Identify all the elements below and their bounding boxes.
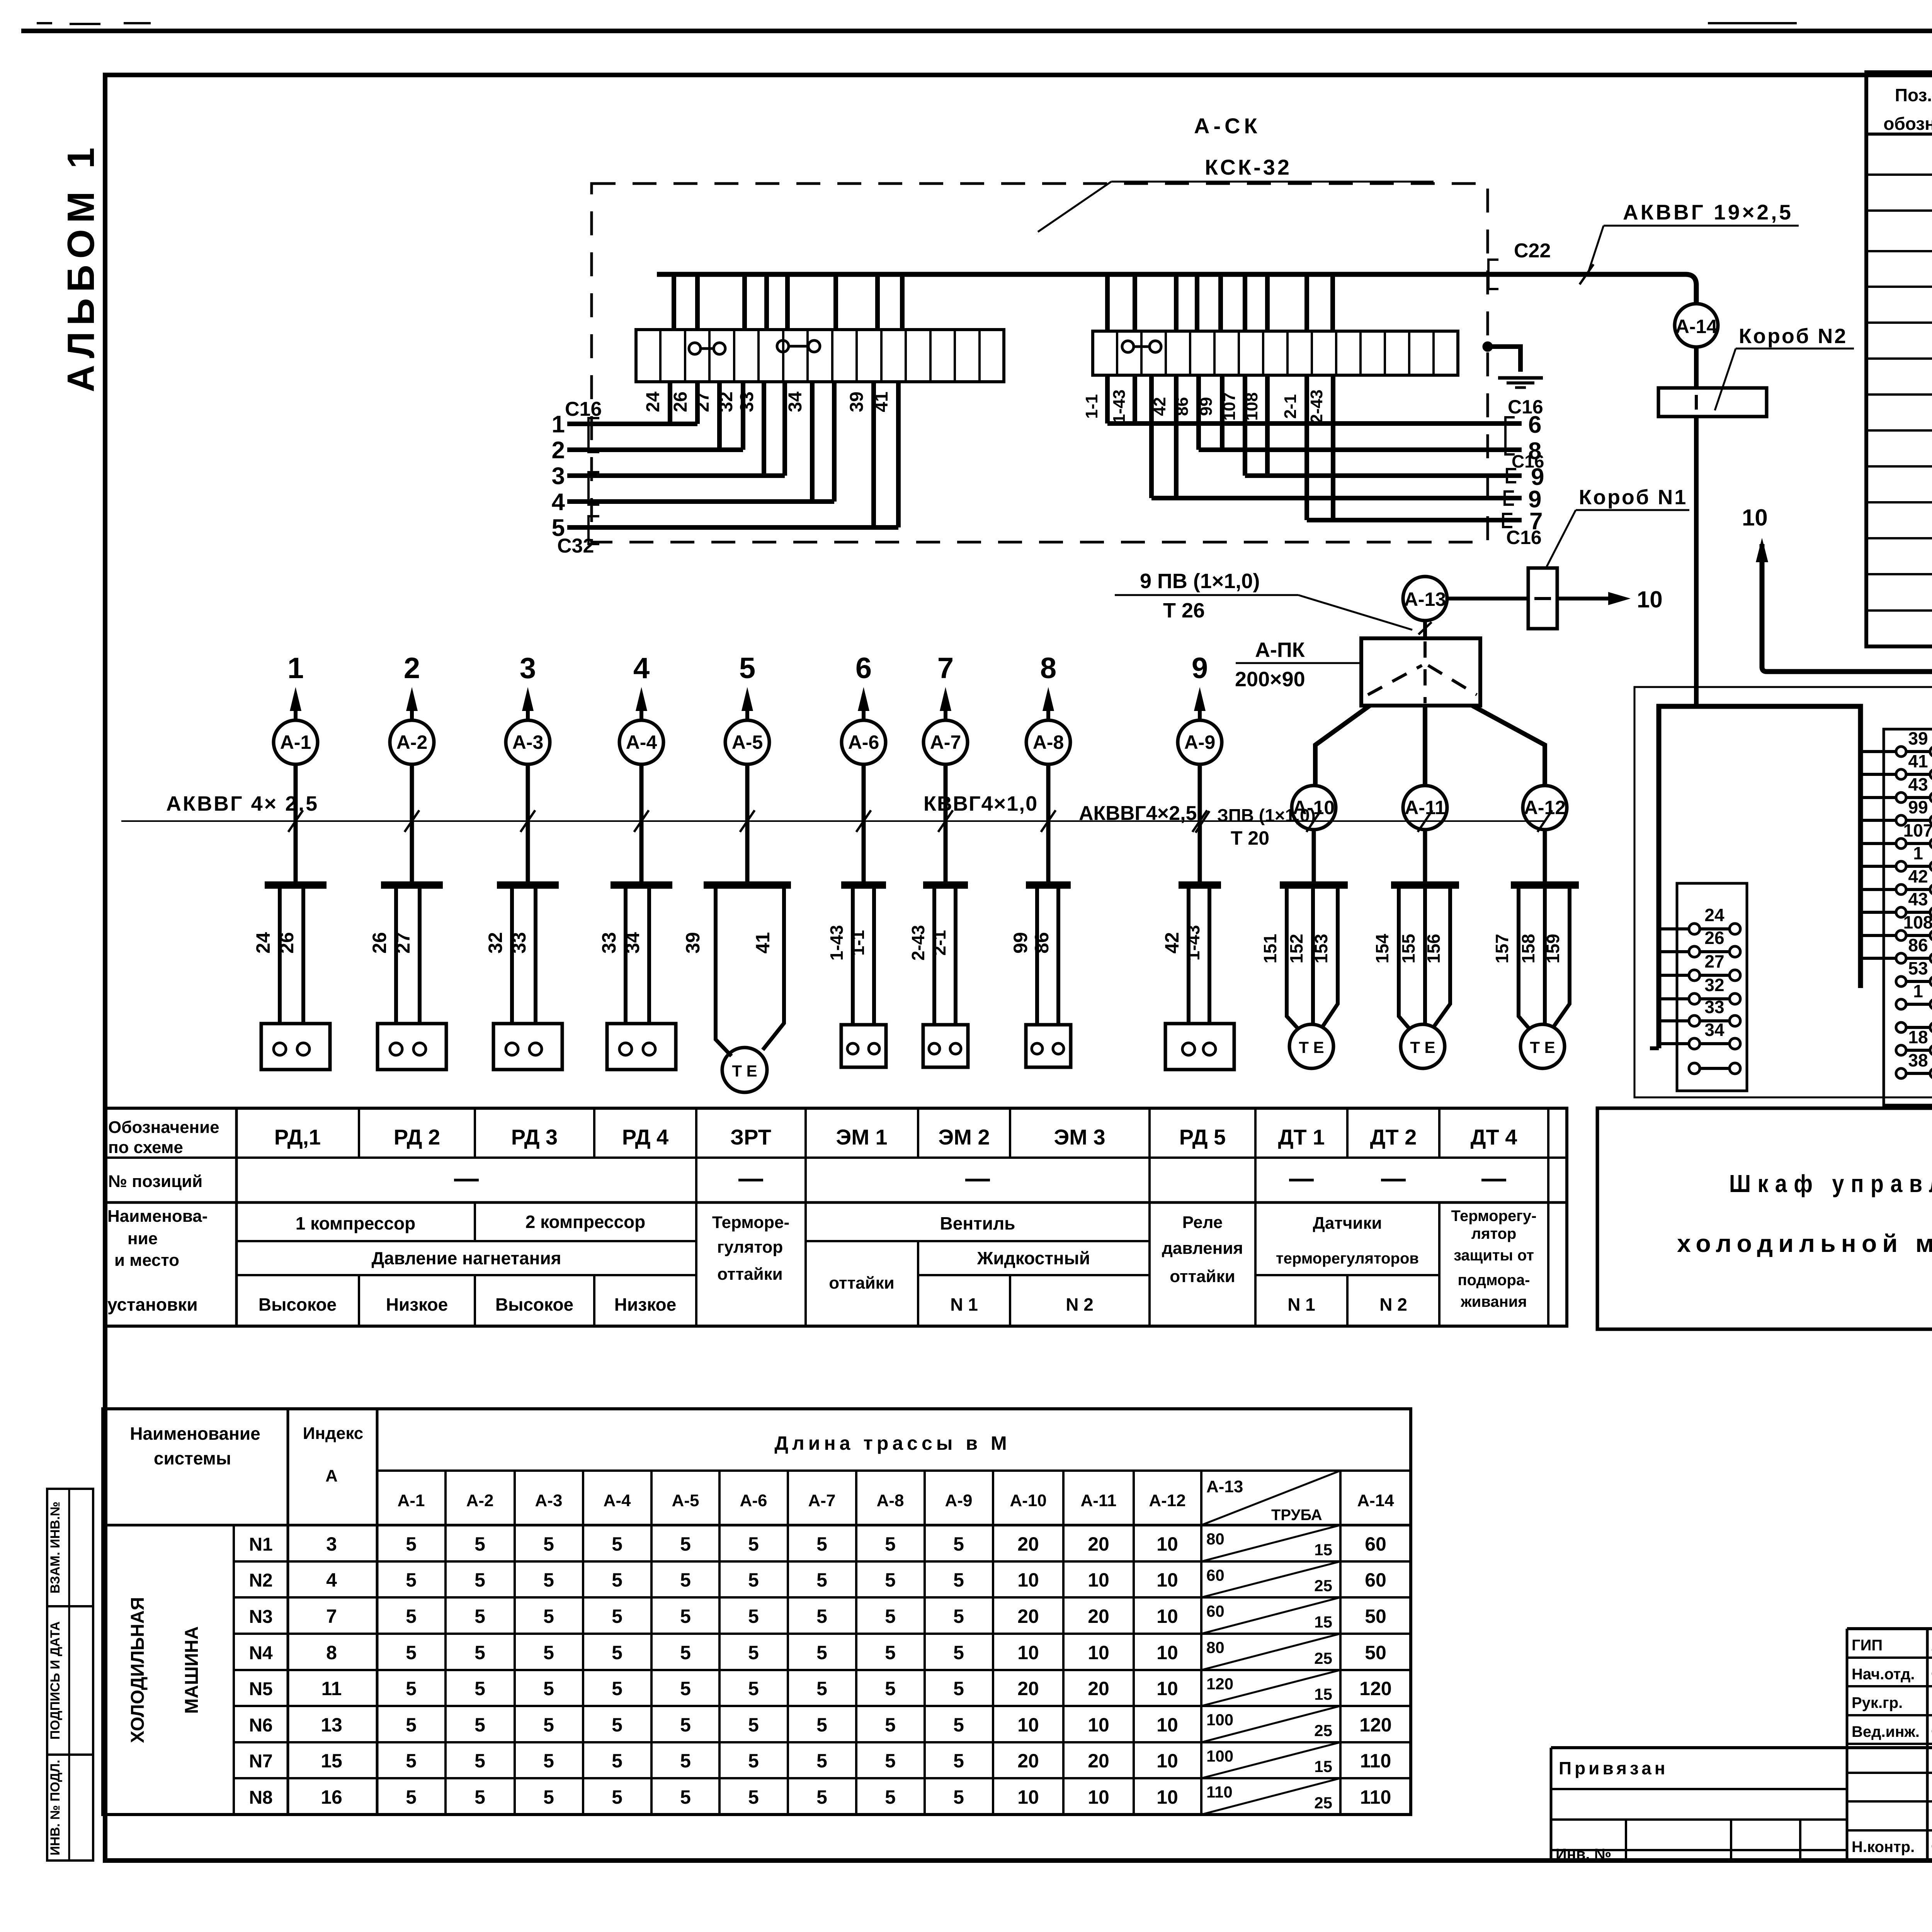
- svg-text:2-1: 2-1: [1281, 394, 1300, 419]
- svg-text:42: 42: [1908, 866, 1928, 886]
- svg-text:Наименование: Наименование: [130, 1423, 260, 1444]
- terminal 86 of strip X2: [1896, 953, 1906, 963]
- svg-text:РД 5: РД 5: [1179, 1125, 1226, 1149]
- terminal 33 of strip X1: [1689, 1015, 1700, 1026]
- svg-text:ТРУБА: ТРУБА: [1271, 1507, 1322, 1524]
- cable mark slash at А-12: [1537, 810, 1552, 832]
- svg-text:N8: N8: [249, 1787, 272, 1808]
- ground connection junction dot: [1483, 342, 1493, 352]
- svg-text:157: 157: [1492, 934, 1512, 964]
- svg-text:1-1: 1-1: [848, 930, 868, 956]
- svg-text:Т Е: Т Е: [1299, 1038, 1324, 1056]
- svg-text:Т 26: Т 26: [1163, 599, 1205, 622]
- panel bus foot: [1650, 1046, 1659, 1050]
- svg-text:С16: С16: [1512, 451, 1544, 471]
- svg-text:32: 32: [1704, 975, 1724, 995]
- svg-text:А-12: А-12: [1149, 1491, 1185, 1510]
- cable mark slash at А-10: [1306, 810, 1321, 832]
- wire to terminal 107: [1861, 842, 1896, 845]
- svg-text:7: 7: [937, 652, 954, 685]
- wire to terminal 34: [1659, 1042, 1689, 1045]
- svg-text:А-1: А-1: [280, 731, 311, 753]
- wire bus to A-14: [1694, 301, 1699, 306]
- cable mark slash near label ZPV: [1196, 811, 1209, 833]
- wire pull box to A-10: [1315, 706, 1370, 786]
- svg-text:5: 5: [816, 1642, 827, 1663]
- svg-text:оттайки: оттайки: [829, 1274, 894, 1293]
- svg-text:А-13: А-13: [1206, 1477, 1243, 1496]
- svg-text:5: 5: [953, 1533, 964, 1555]
- terminal 42 of strip X2: [1896, 884, 1906, 895]
- svg-text:110: 110: [1360, 1750, 1391, 1772]
- svg-text:5: 5: [680, 1750, 691, 1772]
- svg-text:А-2: А-2: [466, 1491, 494, 1510]
- svg-text:и место: и место: [114, 1251, 179, 1270]
- terminal box А-2: [378, 1024, 446, 1070]
- wires below bar А-5: [716, 888, 731, 1056]
- wires bus to TB1: [672, 274, 676, 330]
- wire А-1 to connection bar: [294, 764, 298, 883]
- control cabinet outline: [1634, 687, 1932, 1097]
- wire А-11 to connection bar: [1423, 830, 1427, 883]
- svg-text:120: 120: [1359, 1714, 1391, 1736]
- svg-text:99: 99: [1908, 797, 1928, 817]
- connection bar А-3: [497, 881, 559, 889]
- A-13 split cell row N1: [1201, 1525, 1340, 1561]
- svg-text:153: 153: [1311, 934, 1331, 964]
- svg-text:5: 5: [885, 1750, 896, 1772]
- svg-text:КВВГ4×1,0: КВВГ4×1,0: [923, 792, 1038, 815]
- temperature sensor TE of А-10: [1289, 1024, 1333, 1068]
- wire with arrow to 10: [1557, 597, 1611, 600]
- svg-text:26: 26: [369, 932, 390, 954]
- svg-text:15: 15: [1314, 1541, 1332, 1559]
- terminal 41 of strip X2: [1896, 769, 1906, 779]
- terminal box А-9: [1165, 1024, 1234, 1070]
- device circle А-2: [390, 720, 434, 764]
- connection bar А-2: [381, 881, 443, 889]
- svg-text:5: 5: [816, 1678, 827, 1699]
- svg-text:80: 80: [1206, 1638, 1225, 1656]
- svg-text:10: 10: [1742, 505, 1768, 531]
- svg-text:9: 9: [1192, 652, 1208, 685]
- svg-text:26: 26: [1704, 928, 1724, 948]
- wire А-7 to connection bar: [944, 764, 948, 883]
- svg-text:ИНВ. № ПОДЛ.: ИНВ. № ПОДЛ.: [48, 1760, 63, 1855]
- svg-text:20: 20: [1017, 1533, 1039, 1555]
- A-13 split cell row N8: [1201, 1778, 1340, 1815]
- svg-text:установки: установки: [107, 1294, 198, 1315]
- device circle A-14: [1675, 304, 1718, 347]
- wire stubs below TB2: [1105, 375, 1110, 423]
- junction box A-CK dashed outline: [592, 184, 1488, 542]
- svg-text:Терморе-: Терморе-: [712, 1213, 789, 1232]
- svg-text:Высокое: Высокое: [495, 1294, 573, 1315]
- svg-text:5: 5: [474, 1533, 485, 1555]
- wire 5: [567, 525, 898, 530]
- svg-text:ЭМ 2: ЭМ 2: [938, 1125, 990, 1149]
- device circle А-8: [1026, 720, 1070, 764]
- svg-text:5: 5: [474, 1642, 485, 1663]
- svg-text:26: 26: [670, 391, 691, 412]
- wire to terminal 27: [1659, 974, 1689, 977]
- temperature sensor TE of А-11: [1401, 1024, 1445, 1068]
- svg-text:№ позиций: № позиций: [108, 1172, 202, 1191]
- svg-text:А-11: А-11: [1081, 1491, 1117, 1510]
- wire A-13 to duct box 1: [1447, 597, 1528, 600]
- svg-text:2 компрессор: 2 компрессор: [526, 1212, 646, 1232]
- svg-text:Низкое: Низкое: [614, 1294, 676, 1315]
- svg-text:ДТ 2: ДТ 2: [1370, 1125, 1417, 1149]
- terminal block TB1: [636, 330, 1004, 382]
- svg-text:5: 5: [474, 1786, 485, 1808]
- connector brackets on left dashed border: [588, 418, 599, 452]
- svg-text:системы: системы: [154, 1448, 231, 1468]
- svg-text:1-43: 1-43: [1183, 925, 1203, 961]
- wire 2: [567, 447, 743, 452]
- wire 8: [1199, 447, 1522, 452]
- wire duct box 2 to cabinet: [1694, 417, 1699, 706]
- svg-text:ХОЛОДИЛЬНАЯ: ХОЛОДИЛЬНАЯ: [128, 1597, 148, 1743]
- svg-text:25: 25: [1314, 1649, 1332, 1667]
- svg-text:120: 120: [1359, 1678, 1391, 1699]
- terminal strip X1 24-34: [1677, 883, 1747, 1091]
- svg-text:5: 5: [885, 1678, 896, 1699]
- terminal box А-3: [493, 1024, 562, 1070]
- svg-text:86: 86: [1031, 932, 1053, 954]
- svg-text:80: 80: [1206, 1530, 1225, 1548]
- terminal spare of strip X2: [1896, 1022, 1906, 1032]
- svg-text:Вентиль: Вентиль: [940, 1213, 1015, 1233]
- svg-text:10: 10: [1017, 1642, 1039, 1663]
- svg-text:86: 86: [1908, 935, 1928, 955]
- wire 4: [567, 499, 834, 504]
- svg-text:1: 1: [287, 652, 304, 685]
- svg-text:Индекс: Индекс: [303, 1424, 364, 1443]
- svg-text:15: 15: [1314, 1685, 1332, 1703]
- svg-text:Поз.: Поз.: [1895, 85, 1932, 105]
- svg-text:АЛЬБОМ 1: АЛЬБОМ 1: [60, 141, 102, 392]
- svg-text:5: 5: [543, 1750, 554, 1772]
- svg-text:А-4: А-4: [604, 1491, 631, 1510]
- svg-text:Вед.инж.: Вед.инж.: [1852, 1723, 1920, 1740]
- svg-text:А: А: [325, 1466, 338, 1485]
- svg-text:А-9: А-9: [1184, 731, 1216, 753]
- svg-text:N 2: N 2: [1066, 1294, 1094, 1315]
- svg-text:32: 32: [485, 932, 506, 954]
- svg-text:оттайки: оттайки: [1170, 1267, 1235, 1286]
- svg-text:1-43: 1-43: [827, 925, 847, 961]
- wire А-12 to connection bar: [1543, 830, 1547, 883]
- svg-text:99: 99: [1010, 932, 1031, 954]
- cable mark slash at А-5: [740, 810, 755, 832]
- svg-text:5: 5: [406, 1714, 417, 1736]
- svg-text:5: 5: [748, 1714, 759, 1736]
- svg-text:ЭМ 1: ЭМ 1: [836, 1125, 887, 1149]
- wire A-13 down to pull box: [1423, 621, 1427, 638]
- connection bar А-8: [1026, 881, 1071, 889]
- device circle А-4: [619, 720, 663, 764]
- svg-text:давления: давления: [1162, 1239, 1243, 1258]
- svg-text:5: 5: [612, 1750, 622, 1772]
- svg-text:5: 5: [612, 1642, 622, 1663]
- svg-text:ЗПВ (1×1,0): ЗПВ (1×1,0): [1217, 805, 1316, 825]
- svg-text:86: 86: [1173, 397, 1192, 416]
- terminal 43 of strip X2: [1896, 793, 1906, 803]
- svg-text:защиты от: защиты от: [1454, 1247, 1534, 1264]
- svg-text:Инв. №: Инв. №: [1556, 1846, 1611, 1863]
- wire А-8 to connection bar: [1046, 764, 1051, 883]
- sheet top border line: [21, 29, 1932, 33]
- terminal 34 of strip X1: [1689, 1038, 1700, 1049]
- connection bar А-1: [265, 881, 327, 889]
- svg-text:А-7: А-7: [808, 1491, 836, 1510]
- svg-text:42: 42: [1161, 932, 1183, 954]
- svg-text:13: 13: [321, 1714, 342, 1736]
- svg-text:КСК-32: КСК-32: [1205, 155, 1292, 179]
- svg-text:А-14: А-14: [1675, 316, 1718, 337]
- svg-text:5: 5: [406, 1678, 417, 1699]
- svg-text:N7: N7: [249, 1751, 272, 1772]
- svg-text:5: 5: [474, 1569, 485, 1591]
- svg-text:4: 4: [552, 489, 565, 515]
- wire pull box to A-11: [1423, 706, 1427, 786]
- svg-text:4: 4: [633, 652, 650, 685]
- cabinet inner panel thick outline: [1659, 706, 1861, 1048]
- designation table grid: [104, 1108, 1567, 1326]
- ground symbol: [1498, 376, 1543, 380]
- svg-text:33: 33: [508, 932, 530, 954]
- svg-text:10: 10: [1088, 1714, 1109, 1736]
- svg-text:152: 152: [1286, 934, 1306, 964]
- svg-text:N1: N1: [249, 1534, 272, 1555]
- svg-text:5: 5: [406, 1750, 417, 1772]
- A-13 split cell row N4: [1201, 1634, 1340, 1670]
- svg-text:5: 5: [612, 1786, 622, 1808]
- wires below bar А-7: [932, 888, 936, 1025]
- svg-text:5: 5: [885, 1605, 896, 1627]
- wire to terminal 39: [1861, 750, 1896, 753]
- A-13 split cell row N5: [1201, 1670, 1340, 1706]
- cabinet caption box: [1597, 1108, 1932, 1329]
- connection bar А-4: [611, 881, 672, 889]
- svg-text:100: 100: [1206, 1711, 1233, 1729]
- svg-text:25: 25: [1314, 1721, 1332, 1740]
- svg-text:холодильной машиной: холодильной машиной: [1677, 1230, 1932, 1257]
- wire 1: [567, 422, 697, 426]
- svg-text:20: 20: [1088, 1750, 1109, 1772]
- wires below bar А-8: [1035, 888, 1039, 1025]
- cable 10 riser arrow: [1756, 538, 1768, 562]
- svg-text:2: 2: [552, 437, 565, 464]
- connection bar А-10: [1280, 881, 1348, 889]
- device circle А-1: [274, 720, 318, 764]
- svg-text:5: 5: [612, 1678, 622, 1699]
- svg-text:10: 10: [1156, 1569, 1178, 1591]
- svg-text:5: 5: [739, 652, 755, 685]
- cable 10 wire to cabinet: [1762, 667, 1932, 937]
- svg-text:5: 5: [953, 1678, 964, 1699]
- svg-text:подмора-: подмора-: [1458, 1272, 1530, 1289]
- svg-text:33: 33: [1704, 997, 1724, 1017]
- svg-text:10: 10: [1017, 1714, 1039, 1736]
- svg-text:34: 34: [1704, 1020, 1725, 1040]
- svg-text:60: 60: [1206, 1566, 1225, 1584]
- svg-text:5: 5: [816, 1569, 827, 1591]
- svg-text:5: 5: [816, 1786, 827, 1808]
- svg-text:18: 18: [1908, 1027, 1928, 1047]
- connection bar А-5: [704, 881, 791, 889]
- svg-text:5: 5: [406, 1569, 417, 1591]
- terminal box А-1: [261, 1024, 330, 1070]
- svg-text:А-7: А-7: [930, 731, 961, 753]
- svg-text:Жидкостный: Жидкостный: [977, 1248, 1090, 1268]
- terminal 27 of strip X1: [1689, 970, 1700, 981]
- terminal spare of strip X1: [1689, 1063, 1700, 1074]
- svg-text:ГИП: ГИП: [1852, 1637, 1883, 1654]
- svg-text:Т Е: Т Е: [1410, 1038, 1435, 1056]
- wire to terminal 42: [1861, 888, 1896, 891]
- svg-text:5: 5: [680, 1678, 691, 1699]
- svg-text:N6: N6: [249, 1715, 272, 1736]
- svg-text:N3: N3: [249, 1607, 272, 1627]
- wire to terminal 41: [1861, 773, 1896, 776]
- svg-text:110: 110: [1206, 1783, 1233, 1801]
- svg-text:А-2: А-2: [396, 731, 428, 753]
- svg-text:А-4: А-4: [626, 731, 657, 753]
- title block staff table: [1847, 1628, 1932, 1630]
- wire stubs below TB1: [668, 382, 672, 424]
- svg-text:15: 15: [321, 1750, 342, 1772]
- main bus wire AKVVG 19x2.5: [657, 274, 1696, 304]
- svg-text:24: 24: [1704, 905, 1725, 925]
- svg-text:5: 5: [543, 1678, 554, 1699]
- svg-text:5: 5: [953, 1605, 964, 1627]
- cable mark slash at А-7: [938, 810, 953, 832]
- terminal box А-7: [923, 1025, 968, 1067]
- svg-text:110: 110: [1360, 1786, 1391, 1808]
- svg-text:гулятор: гулятор: [717, 1238, 783, 1257]
- terminal box А-8: [1026, 1025, 1071, 1067]
- svg-text:5: 5: [953, 1642, 964, 1663]
- svg-text:А-8: А-8: [877, 1491, 904, 1510]
- svg-text:25: 25: [1314, 1577, 1332, 1595]
- svg-text:N 1: N 1: [950, 1294, 978, 1315]
- svg-text:5: 5: [816, 1714, 827, 1736]
- svg-text:Привязан: Привязан: [1559, 1758, 1668, 1778]
- svg-text:41: 41: [1908, 751, 1928, 771]
- wires below bar А-3: [510, 888, 514, 1025]
- svg-text:ВЗАМ. ИНВ.№: ВЗАМ. ИНВ.№: [48, 1502, 63, 1594]
- svg-text:3: 3: [326, 1533, 337, 1555]
- svg-text:16: 16: [321, 1786, 342, 1808]
- device circle A-13: [1403, 577, 1447, 621]
- cable mark slash at А-11: [1418, 810, 1432, 832]
- svg-text:10: 10: [1156, 1533, 1178, 1555]
- connection bar А-7: [923, 881, 968, 889]
- svg-text:39: 39: [847, 391, 867, 412]
- svg-text:А-6: А-6: [848, 731, 879, 753]
- svg-text:ДТ 4: ДТ 4: [1471, 1125, 1517, 1149]
- svg-text:20: 20: [1017, 1750, 1039, 1772]
- connection bar А-6: [841, 881, 886, 889]
- svg-text:5: 5: [543, 1605, 554, 1627]
- svg-text:5: 5: [612, 1714, 622, 1736]
- svg-text:N5: N5: [249, 1679, 272, 1699]
- wire to terminal 86: [1861, 957, 1896, 960]
- svg-text:108: 108: [1903, 912, 1932, 932]
- svg-text:Нач.отд.: Нач.отд.: [1852, 1666, 1915, 1683]
- svg-text:N4: N4: [249, 1643, 273, 1663]
- svg-text:Т Е: Т Е: [732, 1062, 757, 1080]
- svg-text:10: 10: [1156, 1605, 1178, 1627]
- svg-text:Т 20: Т 20: [1231, 827, 1269, 849]
- wires below bar А-12: [1519, 888, 1530, 1030]
- svg-text:5: 5: [543, 1569, 554, 1591]
- svg-text:10: 10: [1017, 1786, 1039, 1808]
- svg-text:41: 41: [871, 391, 892, 412]
- svg-text:5: 5: [748, 1750, 759, 1772]
- svg-text:107: 107: [1220, 392, 1239, 420]
- svg-text:Низкое: Низкое: [386, 1294, 448, 1315]
- svg-text:155: 155: [1398, 934, 1418, 964]
- wire to terminal 1: [1861, 865, 1896, 868]
- svg-text:3: 3: [520, 652, 536, 685]
- svg-text:1-43: 1-43: [1110, 389, 1129, 423]
- svg-text:7: 7: [326, 1605, 337, 1627]
- svg-text:5: 5: [885, 1714, 896, 1736]
- svg-text:А-11: А-11: [1405, 797, 1446, 818]
- wire to terminal 43: [1861, 796, 1896, 799]
- svg-text:5: 5: [885, 1533, 896, 1555]
- wire to terminal 26: [1659, 950, 1689, 953]
- connection bar А-12: [1511, 881, 1579, 889]
- wire А-4 to connection bar: [639, 764, 644, 883]
- svg-text:Длина трассы в М: Длина трассы в М: [774, 1432, 1010, 1454]
- jumper on TB1 cells 3-4: [689, 343, 701, 354]
- wire to terminal 108: [1861, 934, 1896, 937]
- svg-text:А-5: А-5: [672, 1491, 699, 1510]
- svg-text:8: 8: [1040, 652, 1056, 685]
- device circle А-5: [725, 720, 769, 764]
- svg-text:20: 20: [1088, 1533, 1109, 1555]
- terminal block TB2: [1093, 331, 1458, 375]
- svg-text:А-8: А-8: [1033, 731, 1064, 753]
- svg-text:5: 5: [612, 1533, 622, 1555]
- duct box Korob N2: [1658, 388, 1767, 417]
- svg-text:1: 1: [1913, 981, 1923, 1001]
- svg-text:41: 41: [752, 932, 774, 954]
- svg-text:10: 10: [1156, 1750, 1178, 1772]
- temperature sensor TE of А-5: [722, 1048, 767, 1092]
- svg-text:2-43: 2-43: [1307, 389, 1326, 423]
- svg-text:А-5: А-5: [732, 731, 763, 753]
- svg-text:10: 10: [1156, 1678, 1178, 1699]
- svg-text:А-СК: А-СК: [1194, 114, 1261, 138]
- svg-text:20: 20: [1088, 1605, 1109, 1627]
- svg-text:5: 5: [543, 1714, 554, 1736]
- svg-text:ЭМ 3: ЭМ 3: [1054, 1125, 1105, 1149]
- svg-text:43: 43: [1908, 889, 1928, 909]
- svg-text:ние: ние: [128, 1229, 158, 1248]
- terminal box А-6: [841, 1025, 886, 1067]
- svg-text:5: 5: [474, 1714, 485, 1736]
- svg-text:60: 60: [1365, 1569, 1386, 1591]
- terminal 38 of strip X2: [1896, 1068, 1906, 1078]
- svg-text:20: 20: [1088, 1678, 1109, 1699]
- left frame stamp column boxes: [47, 1489, 93, 1606]
- svg-text:120: 120: [1206, 1675, 1233, 1693]
